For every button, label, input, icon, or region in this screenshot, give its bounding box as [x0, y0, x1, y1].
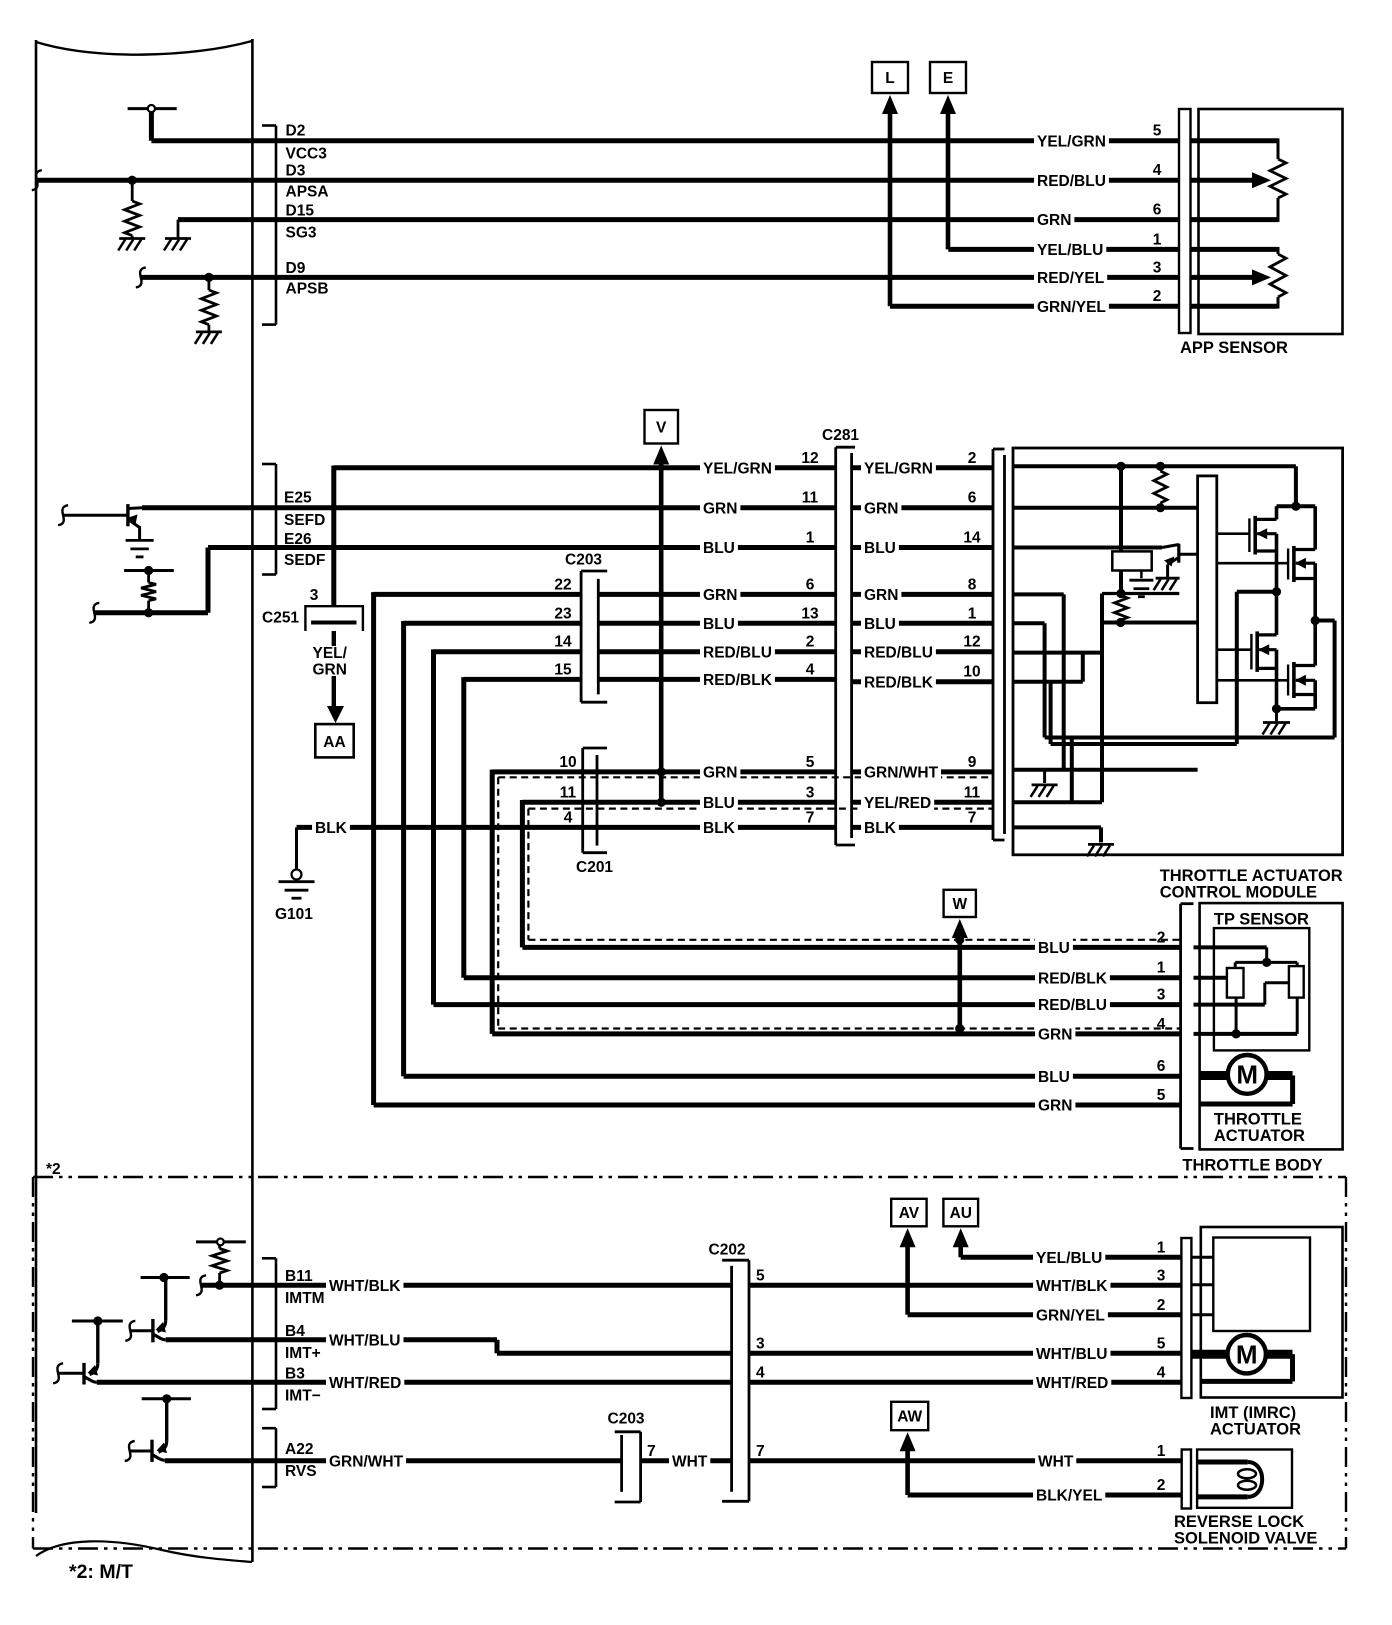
junction node (E26 resistor) [144, 608, 153, 617]
resistor (SEDF) [141, 571, 156, 613]
ECM pin bracket (A22) [262, 1428, 276, 1487]
svg-text:D2: D2 [286, 123, 306, 140]
resistor (module mid) [1115, 596, 1128, 628]
junction dot W-shield inner [955, 935, 964, 944]
svg-text:1: 1 [1157, 1239, 1166, 1256]
svg-text:GRN: GRN [313, 662, 347, 679]
svg-text:BLK/YEL: BLK/YEL [1036, 1488, 1102, 1505]
TP sensor box [1214, 928, 1309, 1050]
svg-text:APSA: APSA [286, 184, 329, 201]
label RED/BLK (module side) [861, 672, 936, 691]
svg-text:RED/BLK: RED/BLK [703, 672, 773, 689]
label BLK (near G101) [312, 818, 350, 837]
MOSFET M4 (low side B) [1217, 621, 1315, 709]
pin label D15 [286, 203, 315, 220]
pin label D3 [286, 163, 306, 180]
pin 2 (TP) [1157, 929, 1166, 946]
pin 12 (module) [963, 634, 980, 651]
module wire pin10 (motor RED/BLK) [1013, 587, 1281, 744]
IMT actuator inner block [1191, 1238, 1310, 1332]
svg-text:YEL/BLU: YEL/BLU [1036, 1250, 1102, 1267]
svg-text:BLU: BLU [1038, 940, 1070, 957]
svg-text:1: 1 [806, 530, 815, 547]
module wire pin1 (motor BLU) [1013, 616, 1335, 738]
ground (module BLK) [1087, 844, 1114, 856]
ground (regulator) [1129, 571, 1153, 597]
resistor (APSA pull-down) [125, 180, 140, 238]
solenoid connector bar [1182, 1450, 1191, 1509]
svg-text:GRN: GRN [1037, 212, 1071, 229]
pin 7 (module) [968, 809, 977, 826]
label WHT (solenoid) [1035, 1451, 1076, 1470]
svg-text:4: 4 [756, 1364, 765, 1381]
svg-text:5: 5 [1157, 1087, 1166, 1104]
svg-text:M: M [1236, 1339, 1258, 1369]
label WHT/RED (IMT) [1033, 1373, 1111, 1392]
wire B4/IMT+ WHT/BLU [166, 1340, 1182, 1354]
svg-text:GRN: GRN [703, 765, 737, 782]
pin 2 (module) [968, 450, 977, 467]
APP pot 1 wiper arrow [1191, 172, 1272, 188]
pin label E26 [284, 531, 312, 548]
svg-text:3: 3 [1153, 259, 1162, 276]
pin 4 (TP) [1157, 1016, 1166, 1033]
TP wire pin4 [1194, 998, 1298, 1039]
label RED/BLU [1034, 171, 1109, 190]
label GRN (C281 left) [700, 498, 740, 517]
svg-text:6: 6 [1153, 202, 1162, 219]
pin 15 (C203) [554, 661, 572, 678]
label RED/BLU (C203 row) [700, 642, 775, 661]
svg-text:1: 1 [1153, 231, 1162, 248]
svg-text:THROTTLE: THROTTLE [1214, 1110, 1302, 1128]
label BLU (C281 left) [700, 538, 738, 557]
label SOLENOID VALVE [1174, 1530, 1317, 1548]
svg-text:WHT/BLU: WHT/BLU [1036, 1346, 1107, 1363]
svg-text:AW: AW [897, 1409, 922, 1426]
pin label IMT+ [285, 1345, 321, 1362]
label *2: M/T [69, 1561, 133, 1583]
pin 7 (C281) [806, 809, 815, 826]
wire YEL/GRN (ETCS power) [334, 466, 836, 607]
junction dot V-shield GRN [657, 767, 666, 776]
svg-text:WHT/BLK: WHT/BLK [329, 1278, 401, 1295]
pin 6 (TP) [1157, 1058, 1166, 1075]
wire YEL/GRN (module 2) [852, 465, 993, 470]
APP pot 1 wiring [1191, 138, 1287, 222]
pin label D2 [286, 123, 306, 140]
svg-text:3: 3 [1157, 987, 1166, 1004]
svg-text:GRN/YEL: GRN/YEL [1036, 1307, 1105, 1324]
svg-text:THROTTLE ACTUATOR: THROTTLE ACTUATOR [1160, 867, 1343, 885]
svg-text:C281: C281 [822, 427, 859, 444]
wire D3/APSA RED/BLU (pin 4) [37, 178, 1179, 183]
label GRN/WHT (module side) [861, 762, 941, 781]
label *2 [46, 1161, 61, 1178]
wire GRN/WHT (module 9) [852, 769, 993, 774]
label GRN (wire colour) [313, 662, 347, 679]
svg-text:L: L [885, 70, 894, 87]
pin 1 (APP) [1153, 231, 1162, 248]
module wire pin14 [1013, 546, 1162, 550]
transistor Q5 (RVS) [125, 1394, 191, 1462]
wire BLK/YEL (solenoid 2) [908, 1493, 1182, 1498]
svg-text:RVS: RVS [285, 1463, 317, 1480]
IMT actuator connector bar [1181, 1238, 1191, 1398]
svg-text:RED/BLU: RED/BLU [864, 644, 933, 661]
label WHT/BLU (IMT) [1033, 1344, 1111, 1363]
svg-text:6: 6 [1157, 1058, 1166, 1075]
label CONTROL MODULE [1160, 884, 1317, 902]
transistor Q1 emitter [129, 515, 140, 541]
label THROTTLE [1214, 1110, 1302, 1128]
svg-text:WHT/RED: WHT/RED [1036, 1375, 1108, 1392]
TP wire pin2 [1194, 947, 1298, 968]
label C203 (RVS) [608, 1411, 645, 1428]
ground (Q1 emitter) [126, 540, 154, 557]
svg-text:4: 4 [1153, 162, 1162, 179]
label C251 [262, 610, 299, 627]
wire GRN/YEL (pin 2) [890, 304, 1179, 309]
wire GRN shielded pair (C201-10) [492, 770, 1180, 1034]
svg-text:12: 12 [963, 634, 980, 651]
svg-text:1: 1 [968, 605, 977, 622]
pin 5 (TP) [1157, 1087, 1166, 1104]
svg-text:GRN: GRN [703, 587, 737, 604]
svg-text:11: 11 [560, 784, 577, 801]
label TP SENSOR [1214, 910, 1309, 928]
svg-text:YEL/GRN: YEL/GRN [864, 460, 933, 477]
pin 14 (module) [963, 530, 981, 547]
svg-text:3: 3 [806, 784, 815, 801]
wire RED/BLU riser (to TP 3) [434, 649, 1181, 1004]
wire B11/IMTM WHT/BLK [201, 1283, 1181, 1288]
pin 22 (C203) [554, 576, 571, 593]
label GRN (module side) [861, 498, 901, 517]
connector C281 [836, 447, 855, 845]
pin label APSB [286, 281, 329, 298]
module wire pin12 [1013, 651, 1102, 655]
label ACTUATOR [1214, 1127, 1305, 1145]
wire BLK (module 7) [852, 825, 993, 830]
pin label B3 [285, 1366, 305, 1383]
svg-text:W: W [952, 896, 967, 913]
label YEL/ (wire colour) [313, 645, 348, 662]
pin 6 (C281) [806, 576, 815, 593]
svg-text:GRN: GRN [703, 500, 737, 517]
switch contact (VCC3 feed) [128, 105, 177, 141]
wire GRN (module 8) [852, 592, 993, 597]
pin 5 (IMT) [1157, 1335, 1166, 1352]
svg-text:7: 7 [647, 1443, 656, 1460]
svg-text:3: 3 [756, 1335, 765, 1352]
svg-text:WHT: WHT [672, 1453, 708, 1470]
label BLU (shield row) [700, 793, 738, 812]
connector ref AW [891, 1402, 928, 1495]
pin 5 (C202) [756, 1267, 765, 1284]
driver IC bar [1198, 476, 1217, 703]
svg-text:YEL/BLU: YEL/BLU [1037, 242, 1103, 259]
ground (APSA resistor) [118, 239, 145, 251]
ground (pin9 shield) [1031, 770, 1058, 797]
connector ref V [645, 410, 679, 802]
pin 3 (TP) [1157, 987, 1166, 1004]
wire E25/SEFD GRN [142, 505, 836, 510]
regulator lower stub [1116, 571, 1125, 599]
svg-text:4: 4 [1157, 1364, 1166, 1381]
svg-text:A22: A22 [285, 1441, 313, 1458]
svg-text:5: 5 [806, 754, 815, 771]
svg-text:13: 13 [801, 605, 819, 622]
wire break at APSB source [136, 267, 146, 287]
svg-text:2: 2 [968, 450, 977, 467]
svg-text:GRN: GRN [1038, 1027, 1072, 1044]
label YEL/GRN [1034, 131, 1109, 150]
MOSFET M1 (high side A) [1217, 506, 1277, 635]
regulator feed [1119, 466, 1123, 551]
shield dashes outer [498, 777, 1180, 1028]
svg-text:IMT−: IMT− [285, 1388, 321, 1405]
svg-text:B11: B11 [285, 1268, 313, 1285]
pin label B4 [285, 1323, 305, 1340]
APP pot 2 wiring [1191, 247, 1287, 309]
svg-text:2: 2 [1157, 1297, 1166, 1314]
svg-text:D3: D3 [286, 163, 306, 180]
module wire pin6 [1013, 506, 1198, 510]
svg-text:BLK: BLK [315, 820, 348, 837]
svg-text:3: 3 [310, 587, 319, 604]
label BLK (C201 row) [700, 818, 738, 837]
svg-text:WHT/RED: WHT/RED [329, 1375, 401, 1392]
svg-text:RED/BLU: RED/BLU [1038, 997, 1107, 1014]
ground (APSB resistor) [195, 332, 222, 344]
wire YEL/BLU (IMT 1) [961, 1255, 1182, 1260]
svg-text:G101: G101 [275, 906, 313, 923]
svg-text:ACTUATOR: ACTUATOR [1214, 1127, 1305, 1145]
svg-text:23: 23 [554, 605, 572, 622]
svg-text:E: E [943, 70, 953, 87]
label C202 [709, 1242, 746, 1259]
svg-text:4: 4 [806, 661, 815, 678]
svg-text:AU: AU [950, 1205, 972, 1222]
svg-text:YEL/RED: YEL/RED [864, 795, 931, 812]
wire YEL/BLU (pin 1) [948, 247, 1179, 252]
svg-text:8: 8 [968, 576, 977, 593]
svg-text:IMTM: IMTM [285, 1290, 325, 1307]
label RED/BLK (C203 row) [700, 670, 775, 689]
label ACTUATOR (IMT) [1210, 1421, 1301, 1439]
svg-text:AA: AA [323, 734, 345, 751]
svg-text:VCC3: VCC3 [286, 146, 328, 163]
transistor Q3 (IMTM) [125, 1273, 189, 1342]
TP wire pin3 [1194, 983, 1289, 1005]
svg-text:BLU: BLU [703, 616, 735, 633]
svg-text:THROTTLE BODY: THROTTLE BODY [1182, 1157, 1322, 1175]
svg-text:3: 3 [1157, 1267, 1166, 1284]
label RED/BLU (module side) [861, 642, 936, 661]
junction node on APSB wire [204, 273, 213, 282]
throttle actuator control module box [1013, 448, 1343, 855]
module link 12-10 [1081, 653, 1085, 682]
pin 3 (C202) [756, 1335, 765, 1352]
svg-text:M: M [1236, 1060, 1258, 1090]
label WHT/RED (left) [326, 1373, 404, 1392]
label C281 [822, 427, 859, 444]
wire YEL/GRN to AA [332, 631, 336, 708]
pin 3 (C281) [806, 784, 815, 801]
svg-text:BLU: BLU [864, 540, 896, 557]
wire GRN (module 6) [852, 505, 993, 510]
svg-text:BLU: BLU [703, 540, 735, 557]
transistor Q4 (IMT+) [53, 1316, 123, 1384]
svg-text:7: 7 [756, 1443, 765, 1460]
svg-text:*2: *2 [46, 1161, 61, 1178]
svg-text:2: 2 [1157, 929, 1166, 946]
svg-text:B4: B4 [285, 1323, 305, 1340]
pin label APSA [286, 184, 329, 201]
pin 9 (module) [968, 754, 977, 771]
svg-text:6: 6 [806, 576, 815, 593]
transistor Q1 collector [128, 506, 142, 510]
pin 23 (C203) [554, 605, 572, 622]
label GRN/WHT (left) [326, 1451, 406, 1470]
ground (Q2 emitter) [1154, 578, 1180, 590]
svg-text:GRN: GRN [1038, 1098, 1072, 1115]
M/T option dashed box [33, 1177, 1346, 1549]
svg-text:D9: D9 [286, 260, 306, 277]
pin 4 (C201) [564, 809, 573, 826]
svg-text:SEFD: SEFD [284, 512, 325, 529]
label YEL/BLU [1034, 240, 1106, 259]
svg-text:6: 6 [968, 490, 977, 507]
pin 10 (C201) [559, 754, 576, 771]
resistor (pullup to pin6) [1154, 471, 1167, 512]
module connector bar [993, 449, 1005, 840]
connector C202 [722, 1260, 749, 1501]
pin 2 (solenoid) [1157, 1477, 1166, 1494]
shield dashes inner [528, 809, 1180, 940]
label RED/BLK (TP 1) [1035, 968, 1110, 987]
svg-text:SOLENOID VALVE: SOLENOID VALVE [1174, 1530, 1317, 1548]
wire D15/SG3 GRN (pin 6) [178, 217, 1179, 222]
resistor (IMTM pull-up) [196, 1239, 246, 1290]
label YEL/RED (module side) [861, 793, 934, 812]
pin 13 (C281) [801, 605, 819, 622]
label C203 [565, 552, 602, 569]
connector ref AA [315, 706, 353, 757]
pin 11 (C281) [802, 490, 819, 507]
label IMT (IMRC) [1210, 1404, 1296, 1422]
svg-text:RED/BLK: RED/BLK [1038, 970, 1108, 987]
connector C203 [581, 571, 607, 702]
label YEL/GRN (C281 left) [700, 458, 775, 477]
pin 2 (IMT) [1157, 1297, 1166, 1314]
pin 1 (TP) [1157, 960, 1166, 977]
pin 5 (APP) [1153, 123, 1162, 140]
label BLU (module side 1) [861, 614, 899, 633]
connector C201 [583, 748, 607, 853]
svg-text:RED/BLU: RED/BLU [703, 644, 772, 661]
junction dot W-shield outer [955, 1024, 964, 1033]
wire BLU riser (to throttle 6) [404, 621, 1181, 1076]
label GRN (module side 8) [861, 585, 901, 604]
connector ref W [944, 890, 976, 1029]
transistor Q1 (SEFD driver) base [58, 504, 128, 526]
pin 11 (module) [964, 784, 981, 801]
pin 1 (module) [968, 605, 977, 622]
pin 14 (C203) [554, 634, 572, 651]
connector ref AV [891, 1199, 926, 1315]
pin 1 (solenoid) [1157, 1443, 1166, 1460]
wire YEL/RED (module 11) [852, 800, 993, 805]
solenoid coil [1197, 1462, 1262, 1497]
pin label A22 [285, 1441, 313, 1458]
wire A22/RVS GRN/WHT-WHT [165, 1458, 1182, 1463]
pin label SEDF [284, 552, 325, 569]
label RED/YEL [1034, 268, 1107, 287]
svg-text:7: 7 [806, 809, 815, 826]
svg-text:IMT (IMRC): IMT (IMRC) [1210, 1404, 1296, 1422]
pin 11 (C201) [560, 784, 577, 801]
TP resistor R1 [1227, 968, 1244, 998]
label YEL/BLU (IMT) [1033, 1248, 1105, 1267]
module +B rail (pin2) [1013, 462, 1315, 511]
svg-text:10: 10 [963, 664, 980, 681]
svg-text:CONTROL MODULE: CONTROL MODULE [1160, 884, 1317, 902]
svg-text:E25: E25 [284, 490, 312, 507]
pin 3 (APP) [1153, 259, 1162, 276]
wire E26/SEDF BLU [208, 545, 836, 550]
pin 5 (C281) [806, 754, 815, 771]
rail above SEDF resistor [124, 566, 174, 575]
module wire pin8 [1013, 594, 1064, 769]
pin 7 (C203 RVS) [647, 1443, 656, 1460]
pin 2 (C281) [806, 634, 815, 651]
svg-text:YEL/GRN: YEL/GRN [1037, 133, 1106, 150]
pin 4 (APP) [1153, 162, 1162, 179]
svg-text:GRN: GRN [864, 587, 898, 604]
wire B3/IMT- WHT/RED [97, 1380, 1182, 1385]
pin 4 (C202) [756, 1364, 765, 1381]
wire D2/VCC3 YEL/GRN (pin 5) [151, 138, 1179, 143]
module vertical 1102 [1100, 594, 1104, 803]
wire break at APSA source [32, 170, 42, 190]
wire RED/BLU (C203-14) [434, 649, 836, 654]
label GRN/YEL [1034, 297, 1109, 316]
svg-text:15: 15 [554, 661, 572, 678]
ground G101 [275, 870, 315, 924]
svg-text:BLU: BLU [1038, 1069, 1070, 1086]
wire GRN riser (to throttle 5) [374, 592, 1181, 1105]
label GRN/YEL (IMT) [1033, 1305, 1108, 1324]
ECM pin bracket (D2/D3/D15/D9) [262, 126, 276, 325]
label BLU (TP 2) [1035, 938, 1073, 957]
label GRN (shield row) [700, 762, 740, 781]
throttle motor M [1200, 1055, 1293, 1104]
label GRN [1034, 210, 1074, 229]
pin 3 (C251) [310, 587, 319, 604]
svg-text:BLU: BLU [703, 795, 735, 812]
connector C251 [305, 606, 363, 631]
label THROTTLE BODY [1182, 1157, 1322, 1175]
wire GRN (C203-22) [374, 592, 836, 597]
svg-text:11: 11 [964, 784, 981, 801]
pin 8 (module) [968, 576, 977, 593]
svg-text:10: 10 [559, 754, 576, 771]
svg-text:D15: D15 [286, 203, 315, 220]
svg-text:C201: C201 [576, 859, 613, 876]
label WHT/BLK (IMT) [1033, 1276, 1111, 1295]
